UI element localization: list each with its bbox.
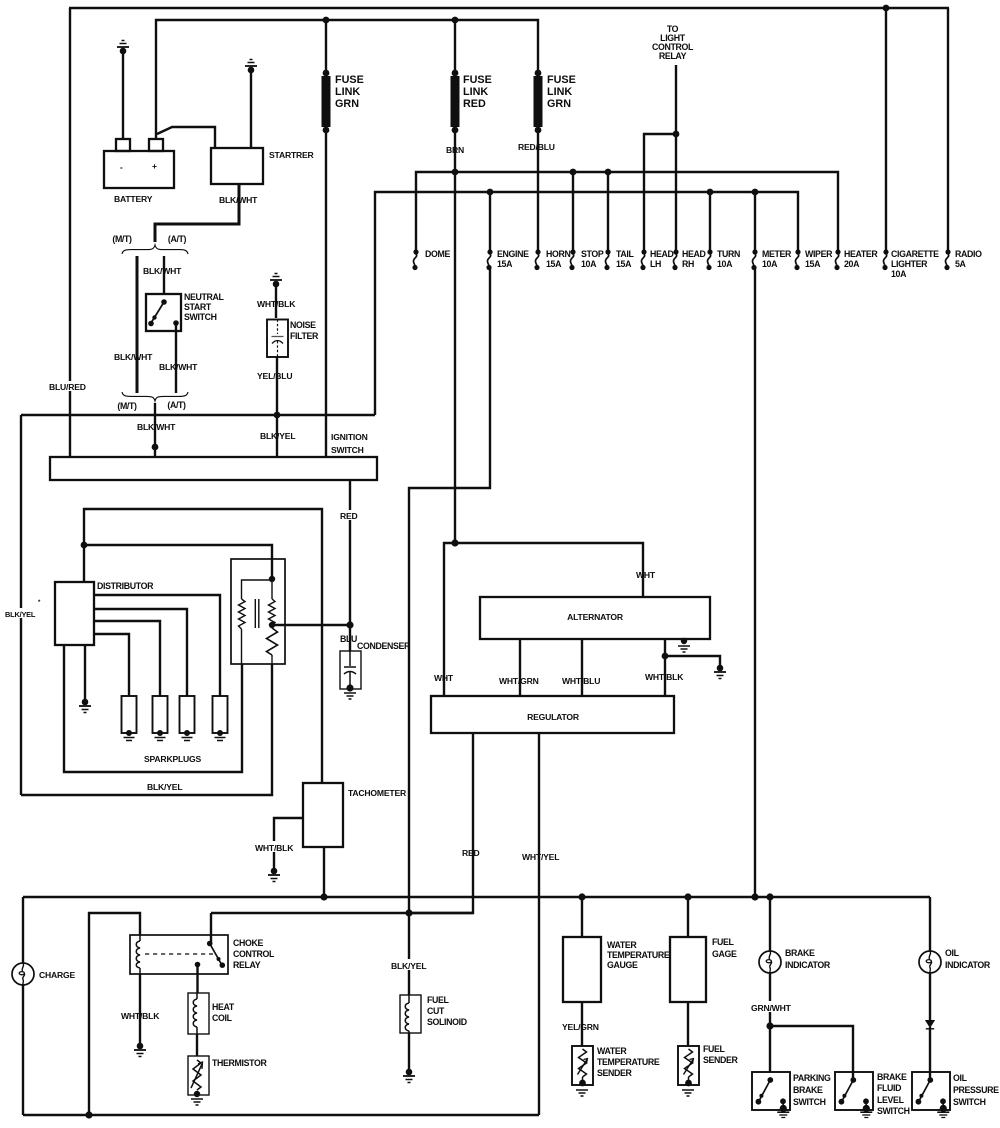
svg-text:PARKING: PARKING	[793, 1073, 831, 1083]
wire: relay contact drop	[210, 913, 212, 944]
svg-text:RED: RED	[463, 98, 486, 110]
IGNITION SWITCH	[50, 432, 377, 480]
wire: to light control relay down to head fuses	[675, 65, 677, 252]
wire: battery positive rail along y=20 to fuse links	[156, 20, 538, 139]
svg-text:(M/T): (M/T)	[112, 234, 132, 244]
fuse HEAD LH	[640, 249, 673, 270]
wire: neutral start switch output	[175, 323, 177, 393]
wire: bus y=897 across	[23, 896, 930, 898]
svg-text:FUEL: FUEL	[703, 1044, 726, 1054]
svg-text:BLK/YEL: BLK/YEL	[391, 961, 426, 971]
svg-text:WHT/BLK: WHT/BLK	[645, 672, 684, 682]
svg-text:RED: RED	[340, 511, 358, 521]
wire: heat coil to thermistor	[196, 1034, 198, 1056]
wire: stop fuse drop	[572, 172, 574, 252]
FUEL SENDER	[678, 1044, 739, 1096]
CONDENSER	[340, 628, 411, 699]
alternator	[480, 597, 710, 639]
fuse DOME	[412, 249, 450, 270]
wire: top border across	[69, 7, 949, 9]
wire: fuse bus 2 at y=192	[375, 192, 798, 415]
node: junction wht/blk ground tap	[662, 653, 669, 660]
svg-text:CIGARETTE: CIGARETTE	[891, 249, 939, 259]
upper brace	[122, 245, 188, 254]
svg-text:15A: 15A	[546, 259, 562, 269]
node: junction fuel cut wire on y=913	[405, 909, 412, 916]
svg-text:METER: METER	[762, 249, 792, 259]
svg-text:FILTER: FILTER	[290, 331, 319, 341]
wire: drop to cigarette lighter fuse	[885, 8, 887, 252]
wire: right side drop to RADIO fuse	[947, 8, 949, 252]
wire: coil resistor bottom to BLK/YEL return line	[21, 664, 272, 795]
wire: tachometer feed from y=508	[84, 509, 322, 783]
node label BLU/RED on left border wire	[48, 381, 88, 392]
svg-text:CHOKE: CHOKE	[233, 938, 264, 948]
wire: left BLK/YEL loop down	[20, 415, 22, 795]
node: junction brake indicator on bus	[766, 893, 773, 900]
wire: BRN wire from fuse link red down to alternator circuit	[454, 130, 456, 543]
svg-text:BLK/YEL: BLK/YEL	[147, 782, 182, 792]
svg-text:OIL: OIL	[953, 1073, 968, 1083]
svg-text:ALTERNATOR: ALTERNATOR	[567, 612, 624, 622]
fuse STOP 10A	[569, 249, 603, 270]
svg-text:LEVEL: LEVEL	[877, 1095, 905, 1105]
wire: WHT/BLK alternator to regulator	[664, 639, 666, 696]
svg-text:+: +	[152, 161, 157, 171]
svg-text:TAIL: TAIL	[616, 249, 634, 259]
svg-text:FUEL: FUEL	[427, 995, 450, 1005]
svg-text:WATER: WATER	[607, 940, 637, 950]
svg-text:10A: 10A	[717, 259, 733, 269]
fuse CIGARETTE LIGHTER 10A	[882, 249, 939, 279]
svg-text:FUSE: FUSE	[463, 74, 492, 86]
wire: distributor to plug2	[94, 621, 160, 696]
node: junction brn on bus1	[452, 169, 459, 176]
fuse TURN 10A	[706, 249, 740, 270]
sparkplug 2	[153, 696, 168, 741]
svg-text:BLK/WHT: BLK/WHT	[159, 362, 198, 372]
node: junction turn on bus2	[707, 189, 714, 196]
svg-text:BRN: BRN	[446, 145, 464, 155]
wire: water temp gauge feed	[581, 897, 583, 937]
svg-text:DOME: DOME	[425, 249, 450, 259]
node: junction on top border feeding cigarette lighter	[883, 5, 890, 12]
svg-text:OIL: OIL	[945, 948, 960, 958]
svg-text:STOP: STOP	[581, 249, 604, 259]
svg-text:BRAKE: BRAKE	[877, 1072, 907, 1082]
svg-text:15A: 15A	[805, 259, 821, 269]
node: junction water temp gauge on bus	[578, 893, 585, 900]
svg-text:LIGHTER: LIGHTER	[891, 259, 928, 269]
wire: distributor to plug4	[94, 595, 220, 696]
svg-text:BLK/YEL: BLK/YEL	[5, 610, 36, 619]
node: junction fuel gage on bus	[684, 893, 691, 900]
svg-text:BRAKE: BRAKE	[785, 948, 815, 958]
battery BT1	[104, 139, 174, 204]
wire: RED/BLU from fuse link grn2 down to horn fuse	[537, 130, 539, 252]
ground below fuel cut solenoid	[403, 1069, 415, 1083]
svg-text:REGULATOR: REGULATOR	[527, 712, 580, 722]
node: junction tail on bus1	[605, 169, 612, 176]
wire: distributor to plug1	[94, 634, 129, 696]
wire: GRN/WHT from brake indicator	[769, 973, 771, 1072]
sparkplug 4	[213, 696, 228, 741]
fuse HEATER 20A	[834, 249, 878, 270]
svg-text:10A: 10A	[762, 259, 778, 269]
lower brace	[122, 392, 188, 401]
svg-text:GAGE: GAGE	[712, 949, 737, 959]
svg-text:SENDER: SENDER	[703, 1055, 739, 1065]
wire: choke relay switch feed line y=913	[211, 912, 473, 914]
svg-text:LH: LH	[650, 259, 661, 269]
wire: wht/blk ground stub	[665, 656, 720, 668]
svg-text:BLU: BLU	[340, 634, 357, 644]
wire: charge lamp feed down	[22, 897, 24, 963]
regulator	[431, 696, 674, 733]
wire: tachometer bottom to accessory bus	[323, 847, 325, 897]
svg-text:5A: 5A	[955, 259, 967, 269]
svg-text:STARTRER: STARTRER	[269, 150, 315, 160]
ground below tachometer pin	[268, 868, 280, 882]
ground above starter	[245, 60, 257, 74]
svg-text:GRN/WHT: GRN/WHT	[751, 1003, 792, 1013]
ground below relay coil	[134, 1043, 146, 1057]
svg-text:BLK/WHT: BLK/WHT	[143, 266, 182, 276]
sparkplug 3	[180, 696, 195, 741]
wire: regulator RED output down	[409, 733, 473, 913]
svg-text:TURN: TURN	[717, 249, 740, 259]
node label TO LIGHT CONTROL RELAY	[652, 24, 694, 61]
diode symbol	[926, 1021, 934, 1029]
svg-text:WHT: WHT	[434, 673, 454, 683]
node: junction stop on bus1	[570, 169, 577, 176]
svg-text:GRN: GRN	[547, 98, 571, 110]
wire: RED from ignition switch to coil circuit	[349, 480, 351, 625]
svg-text:WHT/GRN: WHT/GRN	[499, 676, 539, 686]
node: junction head lh tap	[673, 131, 680, 138]
svg-text:WHT/YEL: WHT/YEL	[522, 852, 559, 862]
svg-text:THERMISTOR: THERMISTOR	[212, 1058, 267, 1068]
svg-text:START: START	[184, 302, 212, 312]
svg-text:SWITCH: SWITCH	[331, 445, 364, 455]
node: junction engine on bus2	[487, 189, 494, 196]
wire: tachometer left pin to ground	[274, 818, 303, 868]
svg-text:ENGINE: ENGINE	[497, 249, 529, 259]
sparkplug 1	[122, 696, 137, 741]
wire: distributor points return down-left loop	[64, 645, 242, 772]
TACHOMETER	[303, 783, 407, 847]
svg-text:LINK: LINK	[463, 86, 488, 98]
svg-text:SENDER: SENDER	[597, 1068, 633, 1078]
svg-text:INDICATOR: INDICATOR	[785, 960, 831, 970]
DISTRIBUTOR	[38, 581, 154, 645]
neutral start switch	[146, 292, 225, 331]
svg-text:FUEL: FUEL	[712, 937, 735, 947]
svg-text:SWITCH: SWITCH	[184, 312, 217, 322]
fuse RADIO 5A	[944, 249, 982, 270]
ground above battery	[117, 41, 129, 55]
wire: fuel gage feed	[687, 897, 689, 937]
svg-text:BLK/WHT: BLK/WHT	[114, 352, 153, 362]
svg-text:LINK: LINK	[335, 86, 360, 98]
HEAT COIL	[188, 993, 235, 1034]
svg-text:WHT/BLK: WHT/BLK	[121, 1011, 160, 1021]
svg-text:SWITCH: SWITCH	[877, 1106, 910, 1116]
svg-text:TEMPERATURE: TEMPERATURE	[607, 950, 670, 960]
svg-text:HEAD: HEAD	[650, 249, 674, 259]
svg-text:*: *	[38, 600, 41, 606]
wire: bottom loop line	[23, 1114, 539, 1116]
node label BLK/YEL left	[4, 608, 40, 619]
wire: combined BLK/WHT into ignition switch	[154, 403, 156, 457]
svg-text:SOLINOID: SOLINOID	[427, 1017, 467, 1027]
wire: distributor to plug3	[94, 609, 187, 696]
svg-text:IGNITION: IGNITION	[331, 432, 368, 442]
fuse link GRN 1	[322, 70, 364, 134]
wire: engine fuse drop	[489, 192, 491, 252]
ground on alternator case	[678, 638, 690, 652]
wire: regulator left feed	[444, 543, 455, 696]
svg-text:COIL: COIL	[212, 1013, 233, 1023]
wire: relay common to heat coil	[196, 965, 198, 994]
node: junction red-coil-condenser	[346, 621, 353, 628]
svg-text:BLU/RED: BLU/RED	[49, 382, 86, 392]
svg-text:FUSE: FUSE	[335, 74, 364, 86]
svg-text:PRESSURE: PRESSURE	[953, 1085, 999, 1095]
fuse METER 10A	[751, 249, 792, 270]
svg-text:HEAD: HEAD	[682, 249, 706, 259]
ground for wht/blk	[714, 665, 726, 679]
svg-text:RELAY: RELAY	[659, 51, 687, 61]
wire: charge lamp to bottom loop	[22, 985, 24, 1115]
node: junction brn split	[451, 539, 458, 546]
node: junction tachometer on bus	[320, 893, 327, 900]
wire: tail fuse drop	[607, 172, 609, 252]
wire: drop to fuse link grn 1	[325, 20, 327, 73]
svg-text:BLK/WHT: BLK/WHT	[137, 422, 176, 432]
wire: distributor feed down	[83, 545, 85, 582]
node: junction meter on bus2	[752, 189, 759, 196]
wire: fuel cut solenoid to ground	[408, 1033, 410, 1072]
wire: coil primary feed along y=545	[84, 545, 272, 579]
svg-text:SWITCH: SWITCH	[953, 1097, 986, 1107]
fuse HEAD RH	[672, 249, 705, 270]
svg-text:WHT/BLU: WHT/BLU	[562, 676, 600, 686]
wire: diode to oil pressure switch	[929, 1027, 931, 1078]
svg-text:TACHOMETER: TACHOMETER	[348, 788, 407, 798]
svg-text:RH: RH	[682, 259, 694, 269]
svg-text:GRN: GRN	[335, 98, 359, 110]
svg-text:DISTRIBUTOR: DISTRIBUTOR	[97, 581, 154, 591]
node: junction at x=455 on battery rail	[452, 17, 459, 24]
wire: M/T branch	[136, 256, 139, 393]
wire: brake indicator feed	[769, 897, 771, 951]
svg-text:WHT/BLK: WHT/BLK	[257, 299, 296, 309]
svg-text:YEL/GRN: YEL/GRN	[562, 1022, 599, 1032]
svg-text:RELAY: RELAY	[233, 960, 261, 970]
ground above noise filter	[270, 274, 282, 288]
svg-text:CONTROL: CONTROL	[233, 949, 275, 959]
svg-text:CHARGE: CHARGE	[39, 970, 76, 980]
node: junction parking/fluid switch split	[766, 1022, 773, 1029]
svg-text:WHT: WHT	[636, 570, 656, 580]
svg-text:HEAT: HEAT	[212, 1002, 235, 1012]
svg-text:SPARKPLUGS: SPARKPLUGS	[144, 754, 202, 764]
svg-text:HORN: HORN	[546, 249, 571, 259]
fuse ENGINE 15A	[486, 249, 529, 270]
wire: alternator top feed	[455, 543, 643, 597]
wire: drop to fuse link red	[454, 20, 456, 73]
fuse link RED	[451, 70, 492, 134]
svg-text:RED/BLU: RED/BLU	[518, 142, 555, 152]
svg-text:CUT: CUT	[427, 1006, 445, 1016]
svg-text:BLK/YEL: BLK/YEL	[260, 431, 295, 441]
fuse TAIL 15A	[604, 249, 634, 270]
svg-text:NEUTRAL: NEUTRAL	[184, 292, 225, 302]
wire: regulator WHT/YEL output down to bottom loop	[538, 733, 540, 1115]
wire: branch to head lh fuse	[644, 134, 676, 252]
wire: meter fuse drop	[754, 192, 756, 252]
svg-text:BRAKE: BRAKE	[793, 1085, 823, 1095]
svg-text:(A/T): (A/T)	[168, 234, 187, 244]
ground below thermistor	[191, 1091, 203, 1105]
WATER TEMPERATURE SENDER	[572, 1046, 660, 1096]
wire: branch to brake fluid level switch	[770, 1026, 853, 1078]
wire: accessory loop y=415 from bus2 to left side	[21, 414, 375, 416]
fuse HORN 15A	[534, 249, 570, 270]
wire: meter fuse long feed down to bus	[754, 267, 756, 897]
svg-text:15A: 15A	[616, 259, 632, 269]
wire: BRN feeder from fuse link grn1 down to ignition switch	[325, 130, 327, 457]
wire: noise filter ground lead	[275, 284, 277, 318]
svg-text:-: -	[120, 162, 123, 172]
wire: engine fuse feed to choke/fuel circuit	[409, 268, 490, 995]
wire: YEL/BLU from noise filter to ignition switch	[276, 357, 278, 457]
svg-text:(M/T): (M/T)	[117, 401, 137, 411]
wire: YEL/GRN to water temp sender	[581, 1002, 583, 1046]
svg-text:GAUGE: GAUGE	[607, 960, 638, 970]
svg-text:SWITCH: SWITCH	[793, 1097, 826, 1107]
starter motor	[211, 148, 315, 184]
svg-text:20A: 20A	[844, 259, 860, 269]
wire: starter ground lead	[250, 70, 252, 148]
wire: fuse bus 1 at y=172	[416, 172, 838, 252]
brake fluid level switch	[835, 1072, 910, 1118]
node: junction distributor feed	[81, 542, 88, 549]
wire: relay coil to ground	[139, 974, 141, 1046]
svg-text:10A: 10A	[581, 259, 597, 269]
fuse WIPER 15A	[794, 249, 833, 270]
wire: oil indicator feed from bus right end	[929, 897, 931, 951]
svg-text:15A: 15A	[497, 259, 513, 269]
wire: coil secondary output to condenser junction	[272, 624, 350, 626]
wire: turn fuse drop	[709, 192, 711, 252]
node: junction meter wire on bus	[751, 893, 758, 900]
wire: WHT/GRN alternator to regulator	[519, 639, 521, 696]
node label BLK/YEL fuel cut	[390, 959, 430, 971]
node: junction choke relay return on bottom loop	[85, 1111, 92, 1118]
svg-text:10A: 10A	[891, 269, 907, 279]
node: junction noise filter wire with accessory loop	[274, 412, 281, 419]
node label BLK/YEL on return line	[146, 781, 186, 792]
svg-text:WIPER: WIPER	[805, 249, 833, 259]
wire: A/T branch upper	[163, 256, 165, 294]
wire: distributor ground lead	[84, 645, 86, 700]
wire: left border from top-left corner down to ignition switch	[69, 8, 71, 457]
svg-text:LINK: LINK	[547, 86, 572, 98]
svg-text:WATER: WATER	[597, 1046, 627, 1056]
brake indicator lamp	[759, 948, 831, 973]
svg-text:CONDENSER: CONDENSER	[357, 641, 411, 651]
svg-text:NOISE: NOISE	[290, 320, 316, 330]
svg-text:BLK/WHT: BLK/WHT	[219, 195, 258, 205]
THERMISTOR	[188, 1056, 267, 1095]
wire: starter BLK/WHT down and left to M/T-A/T brace	[155, 184, 239, 242]
charge indicator lamp	[12, 963, 76, 985]
svg-text:WHT/BLK: WHT/BLK	[255, 843, 294, 853]
svg-text:INDICATOR: INDICATOR	[945, 960, 991, 970]
wire: battery to starter jog	[157, 127, 215, 148]
svg-text:(A/T): (A/T)	[167, 400, 186, 410]
svg-text:HEATER: HEATER	[844, 249, 878, 259]
svg-text:TEMPERATURE: TEMPERATURE	[597, 1057, 660, 1067]
wire: battery negative to ground	[122, 51, 124, 140]
svg-text:RED: RED	[462, 848, 480, 858]
wire: WHT/BLU alternator to regulator	[581, 639, 583, 696]
IGNITION COIL	[231, 559, 285, 665]
svg-text:RADIO: RADIO	[955, 249, 982, 259]
parking brake switch	[752, 1072, 831, 1118]
node: junction at x=326 on battery rail	[323, 17, 330, 24]
noise filter component	[267, 320, 319, 358]
svg-text:BATTERY: BATTERY	[114, 194, 153, 204]
wire: choke relay coil return	[89, 913, 140, 1115]
wire: fuel gage to fuel sender	[687, 1002, 689, 1046]
fuse link GRN 2	[534, 70, 576, 134]
svg-text:YEL/BLU: YEL/BLU	[257, 371, 292, 381]
ground below distributor	[79, 699, 91, 713]
svg-text:FUSE: FUSE	[547, 74, 576, 86]
oil indicator lamp	[919, 948, 991, 973]
wire: oil indicator to diode	[929, 973, 931, 1021]
oil pressure switch	[912, 1072, 999, 1118]
svg-text:FLUID: FLUID	[877, 1083, 901, 1093]
CHOKE CONTROL RELAY	[130, 935, 275, 974]
